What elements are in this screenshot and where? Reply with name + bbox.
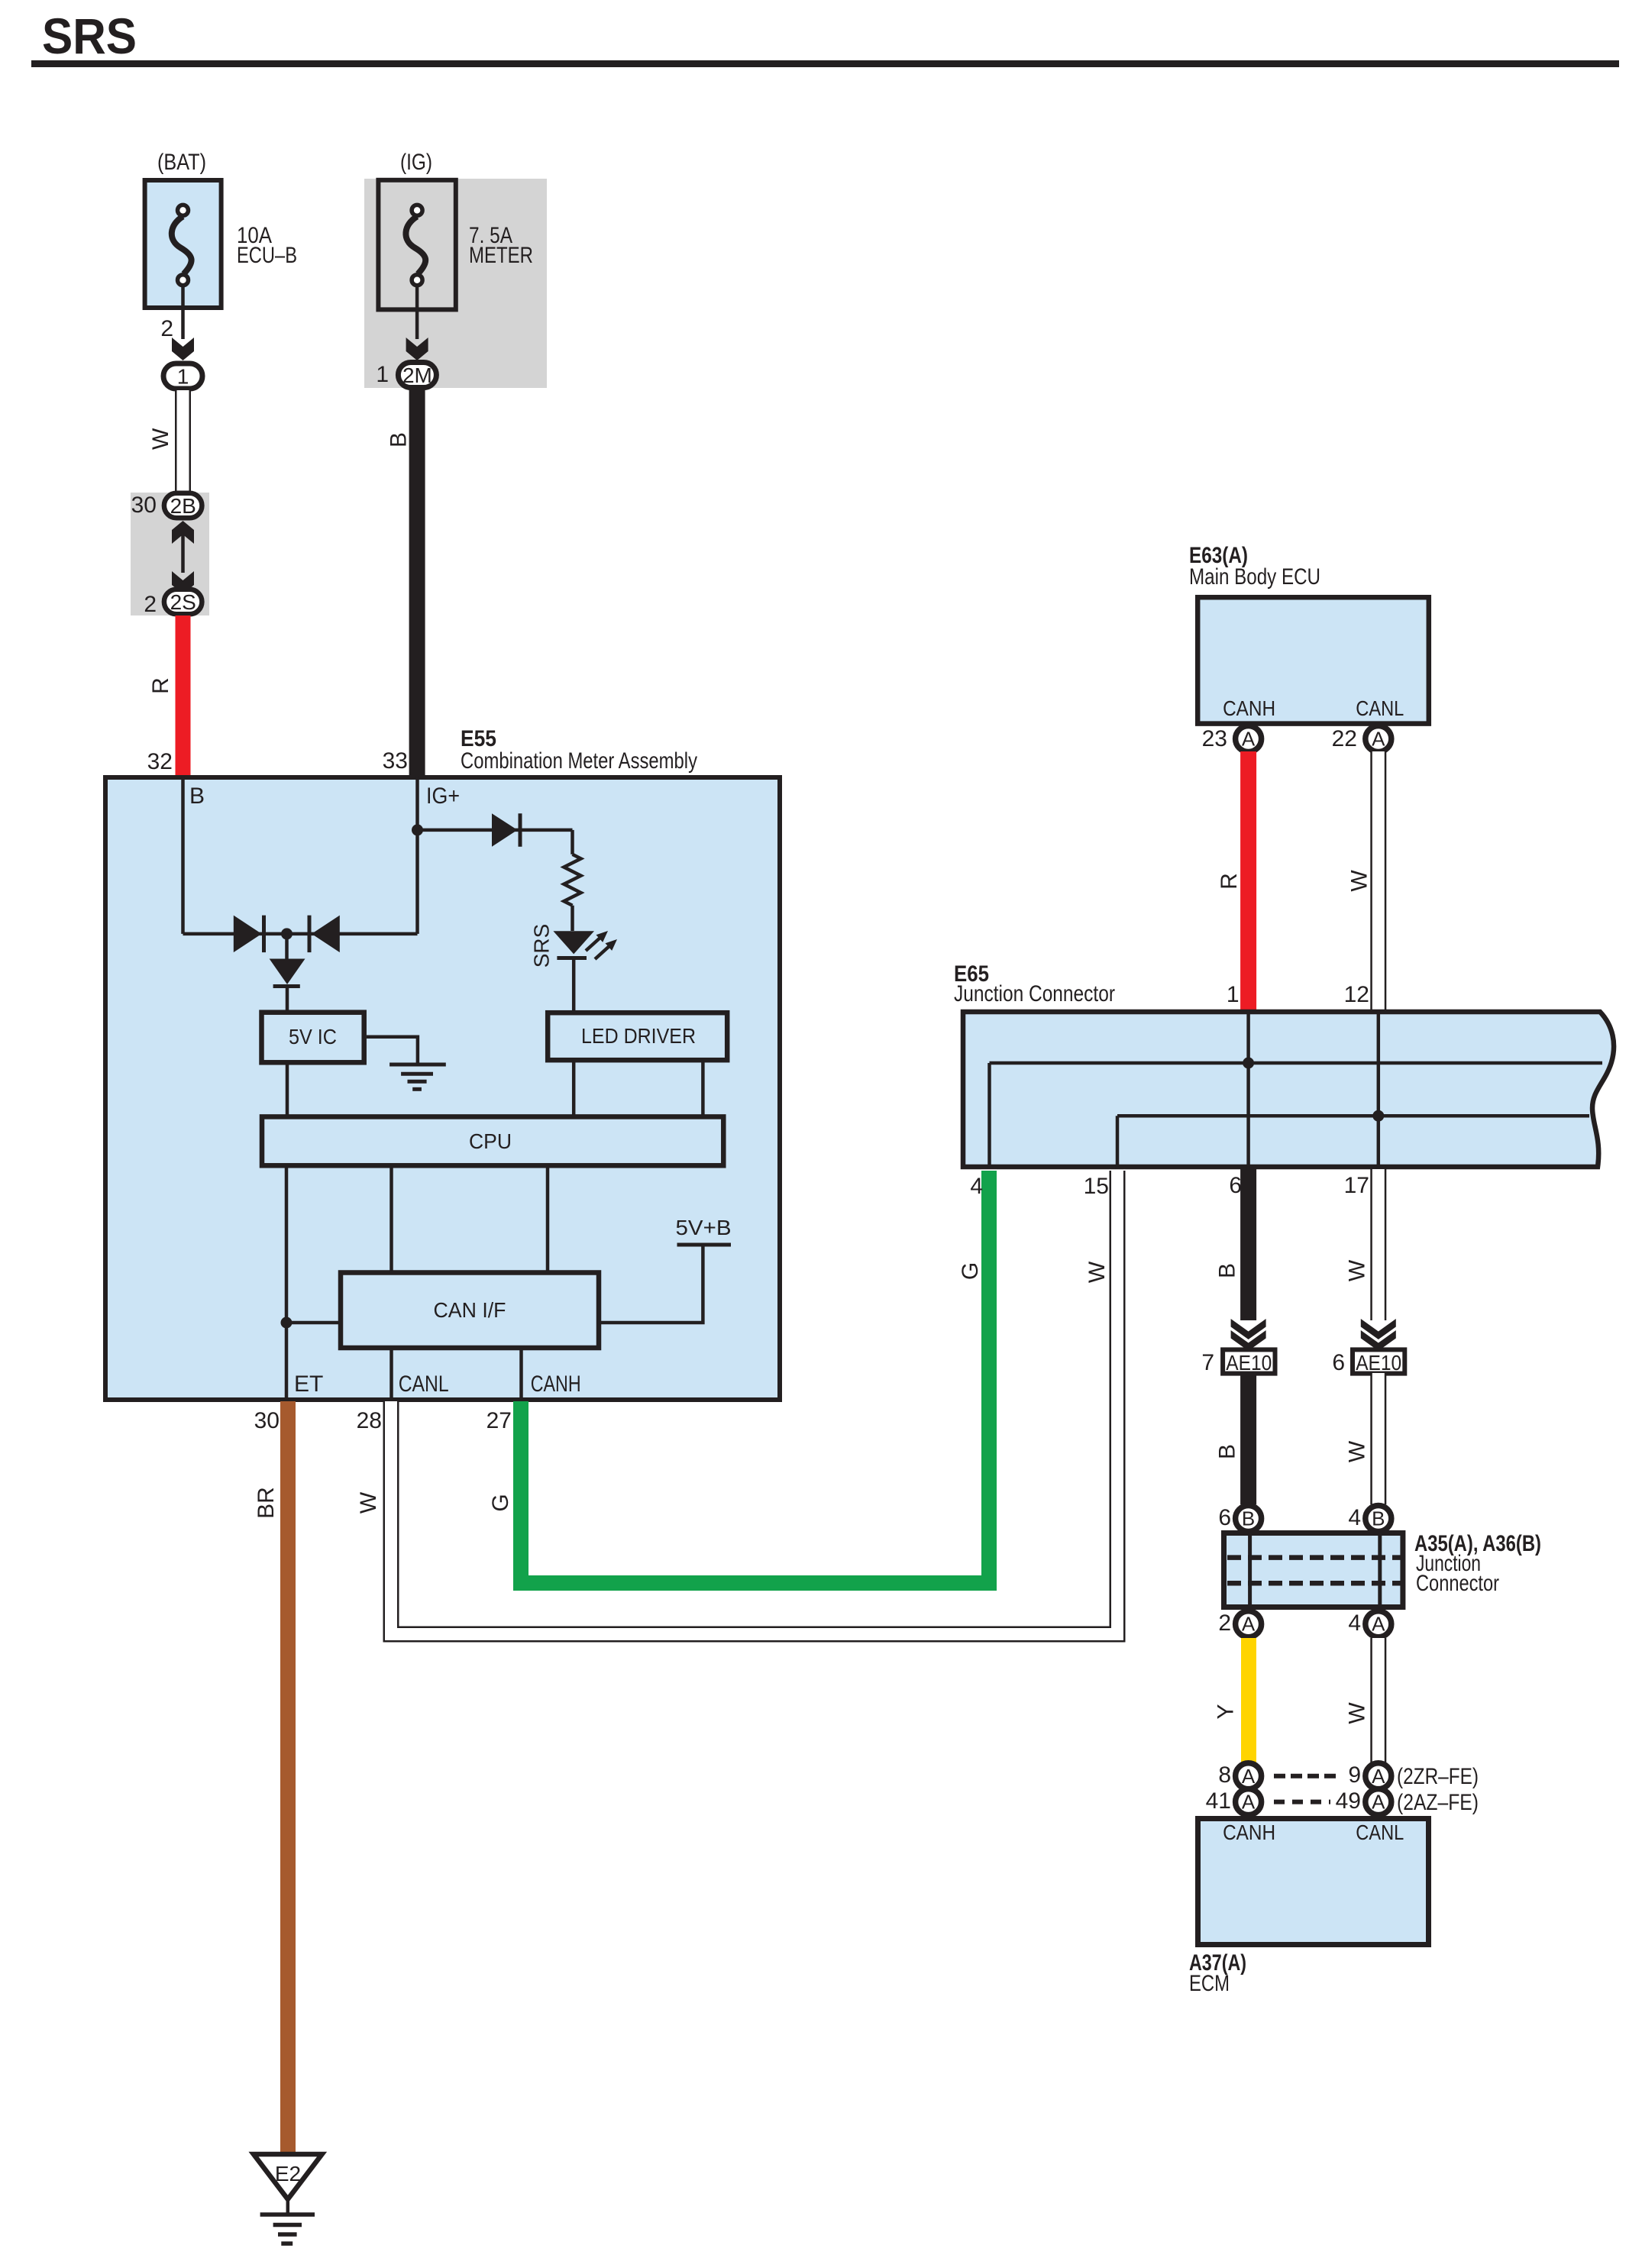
svg-text:ECU–B: ECU–B: [237, 243, 297, 268]
svg-text:A: A: [1372, 1613, 1385, 1636]
E65 bus CANH drop to pin 4: [987, 1063, 991, 1169]
svg-text:A: A: [1372, 728, 1385, 751]
diode D3 (to 5V IC): [285, 934, 289, 959]
svg-text:W: W: [1084, 1261, 1110, 1283]
connector oval 2M: [398, 363, 436, 388]
svg-text:Main Body ECU: Main Body ECU: [1189, 564, 1320, 590]
E65 bus line CANH: [990, 1061, 1603, 1065]
connector oval 1: [163, 363, 202, 389]
svg-text:A: A: [1372, 1791, 1385, 1814]
svg-text:G: G: [958, 1262, 983, 1280]
pin circle 4A (A35 bottom): [1366, 1611, 1391, 1637]
svg-text:A: A: [1242, 1765, 1256, 1788]
splice arrow into AE10 (B): [1231, 1319, 1266, 1339]
svg-text:CPU: CPU: [469, 1129, 512, 1153]
fuse F2 7.5A METER body: [378, 180, 455, 310]
node E65 CANH junction dot: [1243, 1058, 1254, 1069]
resistor R1 (SRS lamp): [570, 830, 574, 855]
svg-text:30: 30: [254, 1408, 280, 1433]
A35 internal dashed bus 1: [1227, 1555, 1402, 1560]
E65 Junction Connector box (torn right edge): [963, 1012, 1614, 1167]
svg-text:ECM: ECM: [1189, 1971, 1230, 1996]
wire W (E65 pin 17 to AE10): [1370, 1169, 1386, 1320]
A35 internal wire left: [1248, 1536, 1252, 1604]
svg-text:4: 4: [1348, 1611, 1361, 1636]
svg-text:5V IC: 5V IC: [289, 1025, 337, 1048]
wire B (2M to E55 pin 33): [409, 389, 425, 776]
regulator 5V IC box: [262, 1013, 364, 1063]
svg-text:A: A: [1242, 1791, 1256, 1814]
svg-text:CANL: CANL: [399, 1371, 449, 1397]
splice arrow into AE10 (W): [1361, 1319, 1396, 1339]
wire W CANL (pin 28 to E65 pin 15): [391, 1171, 1117, 1634]
fuse F1 10A ECU-B body: [145, 180, 221, 308]
wire BR (pin 30 to ground E2): [280, 1401, 296, 2154]
svg-text:R: R: [1217, 873, 1242, 890]
svg-text:(IG): (IG): [400, 150, 432, 175]
svg-text:2: 2: [160, 316, 173, 341]
A37 ECM box: [1198, 1819, 1429, 1945]
svg-text:ET: ET: [294, 1371, 323, 1397]
svg-text:W: W: [148, 428, 173, 450]
svg-text:27: 27: [486, 1408, 512, 1433]
wire W (AE10 to A35 pin 4): [1370, 1373, 1386, 1504]
wire R (E63 pin 23 to E65 pin 1): [1240, 751, 1256, 1010]
E55 Combination Meter Assembly box: [105, 777, 780, 1400]
diode D1 (anode left): [234, 916, 262, 953]
svg-text:LED DRIVER: LED DRIVER: [581, 1024, 696, 1048]
CAN I/F box: [341, 1273, 599, 1349]
svg-text:CANH: CANH: [531, 1371, 581, 1397]
svg-text:6: 6: [1229, 1173, 1242, 1198]
svg-text:BR: BR: [254, 1487, 279, 1519]
CPU box: [262, 1116, 723, 1165]
wire fuse F2 to connector 2M: [415, 285, 419, 339]
A35 internal dashed bus 2: [1227, 1581, 1402, 1586]
svg-text:AE10: AE10: [1356, 1351, 1401, 1375]
svg-text:W: W: [1345, 1440, 1370, 1462]
svg-text:8: 8: [1218, 1762, 1231, 1788]
E65 bus line CANL: [1117, 1114, 1589, 1118]
node diode junction dot: [281, 928, 293, 939]
svg-text:(2AZ–FE): (2AZ–FE): [1397, 1790, 1479, 1815]
lead from pin 32 (B): [181, 776, 185, 934]
E65 bus vertical pin1-pin6: [1246, 1010, 1250, 1169]
E65 bus vertical pin12-pin17: [1377, 1010, 1381, 1169]
diode D2 (anode right): [308, 916, 312, 953]
svg-text:W: W: [1345, 1259, 1370, 1281]
svg-text:22: 22: [1332, 726, 1357, 751]
svg-text:(2ZR–FE): (2ZR–FE): [1397, 1764, 1479, 1789]
svg-text:IG+: IG+: [426, 783, 460, 809]
gray panel for 2B/2S splice: [131, 493, 209, 615]
svg-text:12: 12: [1344, 982, 1369, 1007]
svg-text:W: W: [356, 1491, 381, 1514]
bidirectional splice arrow 2B-2S: [172, 521, 194, 544]
svg-text:17: 17: [1344, 1173, 1369, 1198]
svg-text:2B: 2B: [170, 494, 196, 518]
svg-text:1: 1: [1227, 982, 1240, 1007]
wire W (A35 pin 4 to ECM pin 9): [1370, 1638, 1386, 1762]
pin circle 49A: [1366, 1789, 1391, 1815]
svg-text:23: 23: [1202, 726, 1227, 751]
pin circle 6B (A35 top): [1236, 1506, 1262, 1532]
engine variant link 41-49: [1274, 1800, 1330, 1804]
LED emission arrows: [586, 936, 602, 951]
svg-text:33: 33: [383, 748, 408, 774]
ground E2 triangle: [254, 2154, 322, 2199]
pin circle 8A: [1236, 1763, 1262, 1789]
svg-text:5V+B: 5V+B: [676, 1216, 732, 1239]
svg-text:2S: 2S: [170, 590, 196, 614]
engine variant link 8-9: [1274, 1774, 1340, 1779]
svg-text:7: 7: [1201, 1350, 1214, 1375]
svg-text:CANH: CANH: [1223, 696, 1275, 720]
wire 5V IC to internal ground: [367, 1037, 418, 1065]
svg-text:32: 32: [147, 749, 173, 774]
gray panel for IG fuse: [364, 179, 547, 388]
E65 bus CANL drop to pin 15: [1116, 1116, 1120, 1169]
svg-text:B: B: [1215, 1263, 1240, 1278]
connector oval 2B: [164, 493, 202, 519]
E63 Main Body ECU box: [1198, 597, 1429, 723]
svg-text:Junction Connector: Junction Connector: [954, 981, 1115, 1006]
svg-text:2: 2: [144, 592, 157, 617]
svg-text:4: 4: [970, 1174, 983, 1199]
pin circle 4B (A35 top): [1366, 1506, 1391, 1532]
node ET junction dot: [281, 1317, 293, 1329]
svg-text:B: B: [189, 783, 205, 809]
ground E2 stem: [286, 2198, 290, 2215]
connector AE10 (B side): [1223, 1349, 1275, 1373]
svg-text:Y: Y: [1213, 1704, 1238, 1719]
wire B (E65 pin 6 to AE10): [1240, 1169, 1256, 1320]
svg-text:2M: 2M: [402, 363, 432, 387]
svg-text:15: 15: [1084, 1174, 1109, 1199]
svg-text:METER: METER: [469, 243, 533, 268]
ground E2 bars: [260, 2212, 315, 2217]
svg-text:CAN I/F: CAN I/F: [434, 1298, 506, 1322]
pin circle 9A: [1366, 1763, 1391, 1789]
wire Y (A35 pin 2 to ECM pin 8): [1241, 1638, 1256, 1762]
svg-text:CANH: CANH: [1223, 1821, 1275, 1844]
wire G CANH (pin 27 to E65 pin 4): [521, 1171, 989, 1583]
svg-text:G: G: [488, 1494, 513, 1511]
svg-text:Combination Meter Assembly: Combination Meter Assembly: [461, 748, 697, 774]
wire W (E63 pin 22 to E65 pin 12): [1370, 751, 1386, 1010]
node E65 CANL junction dot: [1372, 1110, 1384, 1122]
title rule: [31, 60, 1619, 67]
svg-text:A: A: [1242, 1613, 1256, 1636]
wire B (AE10 to A35 pin 6): [1240, 1373, 1256, 1504]
svg-text:B: B: [1242, 1507, 1255, 1530]
LED DRIVER box: [548, 1013, 727, 1060]
arrow into connector 2M: [406, 338, 428, 360]
internal ground symbol: [389, 1063, 446, 1067]
svg-text:41: 41: [1206, 1788, 1231, 1814]
pin circle 22A: [1366, 726, 1391, 752]
wire 5V IC to CPU: [286, 1065, 289, 1116]
svg-text:A: A: [1372, 1765, 1385, 1788]
connector oval 2S: [164, 590, 202, 615]
wire IG+ to diode D4: [418, 829, 573, 832]
svg-text:1: 1: [376, 362, 389, 387]
svg-text:2: 2: [1218, 1611, 1231, 1636]
svg-text:AE10: AE10: [1226, 1351, 1272, 1375]
svg-text:SRS: SRS: [42, 8, 137, 64]
SRS warning lamp LED: [553, 931, 594, 954]
svg-text:49: 49: [1336, 1788, 1361, 1814]
wire CAN I/F CANL lead: [389, 1350, 393, 1401]
A35 internal wire right: [1378, 1536, 1382, 1604]
wire LED DRIVER to CPU right: [701, 1062, 705, 1116]
pin circle 2A (A35 bottom): [1236, 1611, 1262, 1637]
svg-text:28: 28: [357, 1408, 382, 1433]
pin circle 23A: [1236, 726, 1262, 752]
svg-text:W: W: [1345, 1702, 1370, 1724]
A35/A36 Junction Connector box: [1224, 1533, 1403, 1607]
svg-text:SRS: SRS: [530, 924, 554, 968]
svg-text:CANL: CANL: [1356, 1821, 1404, 1844]
wire R (2S to E55 pin 32): [176, 615, 191, 776]
lead from pin 33 (IG+): [415, 776, 419, 934]
wire CAN I/F CANH lead: [519, 1350, 523, 1401]
wire LED DRIVER to CPU left: [572, 1062, 576, 1116]
svg-text:A: A: [1242, 728, 1256, 751]
svg-text:B: B: [386, 432, 412, 447]
pin circle 41A: [1236, 1789, 1262, 1815]
svg-text:6: 6: [1218, 1505, 1231, 1530]
svg-text:(BAT): (BAT): [157, 150, 206, 175]
wire B row to diodes: [183, 932, 418, 936]
svg-text:6: 6: [1332, 1350, 1345, 1375]
wire ET vertical: [285, 1168, 289, 1401]
arrow into connector 1: [172, 338, 194, 360]
connector AE10 (W side): [1353, 1349, 1404, 1373]
svg-text:Connector: Connector: [1416, 1571, 1499, 1596]
node IG+ junction dot: [412, 824, 423, 835]
svg-text:W: W: [1347, 870, 1372, 892]
wire CPU to CAN I/F left: [389, 1168, 393, 1271]
svg-text:B: B: [1372, 1507, 1385, 1530]
wire ET to CAN I/F: [286, 1321, 341, 1325]
svg-text:30: 30: [131, 493, 157, 518]
svg-text:4: 4: [1348, 1505, 1361, 1530]
svg-text:E2: E2: [275, 2162, 301, 2186]
svg-text:R: R: [148, 677, 173, 694]
svg-text:9: 9: [1348, 1762, 1361, 1788]
svg-text:1: 1: [177, 365, 189, 389]
wire W (connector 1 to 2B): [175, 390, 191, 493]
wire CPU to CAN I/F right: [546, 1168, 550, 1271]
diode D4 (to SRS lamp): [492, 813, 518, 847]
svg-text:B: B: [1215, 1444, 1240, 1459]
wire fuse F1 to connector 1: [181, 285, 185, 339]
svg-text:CANL: CANL: [1356, 696, 1404, 720]
